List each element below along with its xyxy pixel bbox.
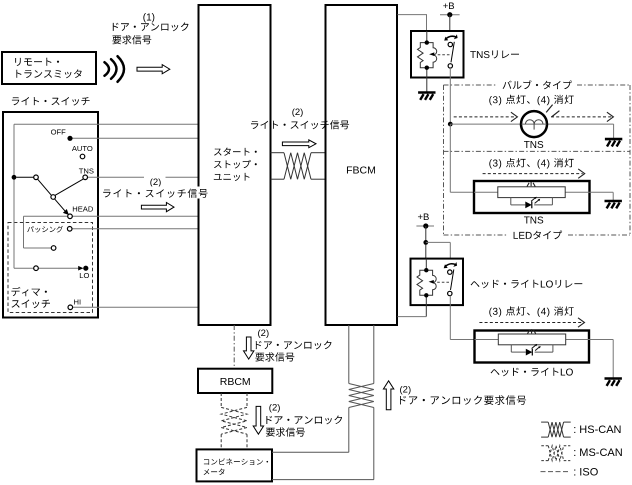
- svg-text:+B: +B: [417, 212, 429, 223]
- wire TNS relay contact down: [449, 68, 451, 124]
- label (3)(4) headlight: [489, 306, 573, 317]
- radio waves: [105, 62, 110, 76]
- ground (LED TNS): [605, 200, 622, 203]
- wire headlight LED to ground: [589, 339, 613, 341]
- wire LO row: [14, 267, 34, 269]
- wire LO relay coil to FBCM: [425, 305, 427, 317]
- LED unit headlight LO: [475, 331, 590, 363]
- svg-text:: ISO: : ISO: [573, 467, 599, 479]
- MS-CAN bus RBCM-meter: [220, 393, 222, 407]
- node PASSING contact: [67, 227, 72, 232]
- node OFF dot: [67, 136, 72, 141]
- svg-text:OFF: OFF: [51, 128, 67, 137]
- ground (headlight LO): [605, 377, 622, 380]
- dimmer switch dashed box: [8, 223, 93, 313]
- svg-text:(2): (2): [258, 328, 270, 339]
- wire HEAD: [24, 215, 68, 217]
- svg-text:(2): (2): [292, 107, 304, 118]
- ground (TNS bulb): [605, 138, 622, 141]
- dashed arrow headlight: [479, 322, 582, 324]
- label PASSING: [27, 226, 63, 233]
- wire OFF-top: [14, 123, 199, 125]
- wire LED TNS to ground: [590, 191, 614, 193]
- svg-text:: HS-CAN: : HS-CAN: [573, 424, 621, 436]
- ISO line unit-RBCM: [233, 325, 235, 369]
- arrow door-unlock request: [137, 65, 170, 74]
- FBCM box: [326, 5, 398, 325]
- svg-text:LO: LO: [79, 271, 89, 280]
- node switch common dot: [12, 175, 17, 180]
- wire LO relay contact down: [449, 296, 451, 340]
- wire TNS: [88, 176, 144, 178]
- arrow door unlock to FBCM: [383, 381, 393, 410]
- label LED type: [514, 231, 563, 240]
- node junction +B branch: [423, 240, 428, 245]
- wire branch to LO contact: [426, 241, 451, 243]
- remote transmitter box: [2, 52, 96, 84]
- LED unit TNS: [474, 181, 590, 213]
- dashed arrow bulb left: [454, 116, 516, 118]
- RBCM box: [198, 369, 272, 393]
- light switch label: [12, 97, 90, 106]
- wire switch common vertical: [13, 124, 15, 268]
- wire FBCM to TNS relay: [398, 15, 427, 31]
- svg-text:(2): (2): [269, 403, 281, 414]
- headlight LO relay: [411, 259, 464, 306]
- node HEAD contact: [68, 214, 73, 219]
- svg-text:AUTO: AUTO: [72, 144, 93, 153]
- wire head-passing link: [23, 216, 25, 248]
- node TNS contact: [83, 175, 88, 180]
- svg-text:TNS: TNS: [524, 140, 544, 151]
- combination meter box: [197, 449, 273, 481]
- wire TNS lamp row: [450, 123, 521, 125]
- svg-text:(1): (1): [143, 13, 155, 24]
- svg-text:FBCM: FBCM: [346, 165, 376, 177]
- node junction TNS lamp: [448, 122, 453, 127]
- dashed arrow LED TNS: [483, 173, 583, 175]
- LO arrow and dot: [78, 266, 83, 271]
- svg-text:RBCM: RBCM: [220, 376, 251, 388]
- start-stop-unit box: [199, 5, 271, 325]
- HS-CAN bus unit-FBCM: [271, 152, 285, 154]
- svg-text:HEAD: HEAD: [72, 204, 94, 213]
- wire HI: [73, 306, 199, 308]
- node passing lever contact: [51, 246, 56, 251]
- label headlight LO relay: [471, 280, 583, 289]
- label bulb type: [503, 80, 572, 89]
- TNS relay: [411, 31, 464, 78]
- wire to headlight LED unit: [450, 339, 474, 341]
- wire common to wiper: [16, 176, 33, 178]
- ground (TNS relay): [418, 91, 435, 94]
- wire OFF-dot: [70, 137, 199, 139]
- svg-text:TNS: TNS: [79, 166, 94, 175]
- wire TNS relay coil to ground: [426, 78, 428, 93]
- wire +B to LO relay coil: [425, 226, 427, 270]
- arrow door unlock to meter: [253, 406, 263, 434]
- node wiper pivot a: [34, 175, 39, 180]
- label (3)(4) bulb: [489, 95, 573, 106]
- legend MS-CAN: [541, 445, 548, 447]
- svg-text:: MS-CAN: : MS-CAN: [573, 447, 623, 459]
- legend ISO: [541, 471, 571, 473]
- wire PASSING: [72, 228, 198, 230]
- HS-CAN bus FBCM-meter: [348, 325, 350, 384]
- label headlight LO: [491, 368, 573, 377]
- dash-dot box bulb/LED types: [444, 84, 498, 86]
- light switch box: [3, 112, 98, 318]
- svg-text:(2): (2): [400, 385, 412, 396]
- switch wiper arm: [38, 179, 52, 195]
- bulb TNS: [521, 111, 547, 137]
- node HI contact: [68, 305, 73, 310]
- legend HS-CAN: [541, 421, 548, 423]
- wire TNS relay contact to LED row: [449, 124, 451, 192]
- label (3)(4) LED TNS: [489, 158, 573, 169]
- arrow door unlock to RBCM: [244, 337, 254, 359]
- node AUTO contact: [80, 154, 85, 159]
- node wiper pivot b: [51, 195, 56, 200]
- node LO wiper contact: [34, 266, 39, 271]
- svg-text:TNS: TNS: [524, 216, 544, 227]
- dashed arrow bulb right: [551, 116, 611, 118]
- divider bulb/LED: [444, 150, 631, 152]
- svg-text:+B: +B: [443, 1, 455, 12]
- svg-text:(2): (2): [150, 177, 162, 188]
- svg-text:HI: HI: [74, 297, 82, 306]
- label TNS relay: [470, 50, 519, 58]
